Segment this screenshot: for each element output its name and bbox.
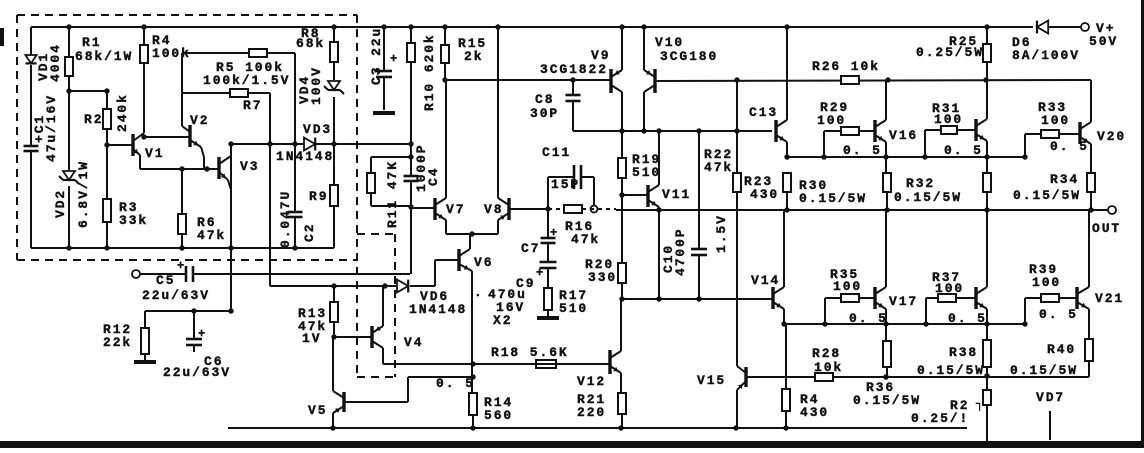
svg-text:V5: V5 xyxy=(308,403,327,418)
svg-text:V11: V11 xyxy=(662,187,691,202)
svg-text:R10 620k: R10 620k xyxy=(422,33,437,111)
svg-text:R11 47K: R11 47K xyxy=(385,160,400,228)
svg-text:0.15/5W: 0.15/5W xyxy=(1013,188,1081,203)
svg-text:47k: 47k xyxy=(197,228,226,243)
svg-text:0.15/5W: 0.15/5W xyxy=(799,191,867,206)
svg-text:22k: 22k xyxy=(103,335,132,350)
svg-text:15P: 15P xyxy=(551,177,580,192)
svg-text:V7: V7 xyxy=(446,202,465,217)
svg-text:0.15/5W: 0.15/5W xyxy=(894,190,962,205)
svg-text:C13: C13 xyxy=(749,105,778,120)
svg-text:330: 330 xyxy=(588,270,617,285)
svg-text:+: + xyxy=(390,52,399,66)
svg-text:100k/1.5V: 100k/1.5V xyxy=(203,73,290,88)
svg-text:100: 100 xyxy=(817,113,846,128)
svg-text:V14: V14 xyxy=(751,273,780,288)
svg-text:R40: R40 xyxy=(1047,342,1076,357)
svg-text:430: 430 xyxy=(800,405,829,420)
svg-text:R32: R32 xyxy=(906,176,935,191)
svg-text:1V: 1V xyxy=(302,331,321,346)
svg-text:4004: 4004 xyxy=(48,43,63,82)
svg-text:V6: V6 xyxy=(474,255,493,270)
svg-text:C8: C8 xyxy=(535,92,554,107)
svg-text:V12: V12 xyxy=(577,374,606,389)
svg-text:4700P: 4700P xyxy=(673,227,688,276)
svg-text:0. 5: 0. 5 xyxy=(843,143,882,158)
svg-text:0. 5: 0. 5 xyxy=(1039,307,1078,322)
svg-text:V9: V9 xyxy=(591,48,610,63)
svg-text:.: . xyxy=(474,285,484,300)
svg-text:100: 100 xyxy=(935,281,964,296)
svg-text:2k: 2k xyxy=(464,49,483,64)
svg-text:3CG180: 3CG180 xyxy=(660,49,718,64)
svg-text:R28: R28 xyxy=(812,346,841,361)
svg-text:47u/16V: 47u/16V xyxy=(44,94,59,162)
svg-text:V3: V3 xyxy=(240,159,259,174)
svg-text:V17: V17 xyxy=(889,294,918,309)
svg-text:50V: 50V xyxy=(1089,34,1118,49)
svg-text:+: + xyxy=(198,327,207,341)
svg-text:V1: V1 xyxy=(145,146,164,161)
svg-text:+: + xyxy=(550,226,559,240)
svg-text:0.25/5W: 0.25/5W xyxy=(916,45,984,60)
svg-text:0.15/5W: 0.15/5W xyxy=(917,363,985,378)
svg-text:V15: V15 xyxy=(697,373,726,388)
svg-text:510: 510 xyxy=(559,301,588,316)
svg-text:30P: 30P xyxy=(530,106,559,121)
svg-text:R1: R1 xyxy=(82,35,101,50)
svg-text:47k: 47k xyxy=(571,232,600,247)
svg-text:0.15/5W: 0.15/5W xyxy=(853,393,921,408)
svg-text:R26 10k: R26 10k xyxy=(812,59,880,74)
svg-text:C3 22u: C3 22u xyxy=(369,27,384,85)
svg-text:R18 5.6K: R18 5.6K xyxy=(491,345,569,360)
svg-text:3CG1822: 3CG1822 xyxy=(540,62,608,77)
svg-text:100: 100 xyxy=(1032,275,1061,290)
svg-text:C7: C7 xyxy=(521,241,540,256)
svg-text:VD2: VD2 xyxy=(53,189,68,218)
svg-text:V21: V21 xyxy=(1095,291,1124,306)
svg-text:220: 220 xyxy=(577,405,606,420)
svg-text:1N4148: 1N4148 xyxy=(409,302,467,317)
svg-text:47k: 47k xyxy=(704,160,733,175)
svg-text:V2: V2 xyxy=(190,113,209,128)
svg-text:┐: ┐ xyxy=(975,397,983,411)
svg-text:0. 5: 0. 5 xyxy=(849,311,888,326)
svg-text:1N4148: 1N4148 xyxy=(276,149,334,164)
svg-text:V4: V4 xyxy=(404,335,423,350)
svg-text:C2: C2 xyxy=(302,223,317,242)
svg-text:R38: R38 xyxy=(949,345,978,360)
svg-text:C11: C11 xyxy=(542,145,571,160)
svg-text:0. 5: 0. 5 xyxy=(948,311,987,326)
svg-text:0. 5: 0. 5 xyxy=(1050,139,1089,154)
svg-text:+: + xyxy=(536,266,545,280)
svg-text:R7: R7 xyxy=(243,98,262,113)
svg-text:+: + xyxy=(177,259,186,273)
svg-text:100: 100 xyxy=(934,112,963,127)
svg-text:68k/1W: 68k/1W xyxy=(75,49,133,64)
svg-text:0.047U: 0.047U xyxy=(278,190,293,248)
svg-text:0. 5: 0. 5 xyxy=(436,376,475,391)
svg-text:22u/63V: 22u/63V xyxy=(142,288,210,303)
svg-text:100V: 100V xyxy=(309,66,324,105)
svg-text:33k: 33k xyxy=(119,213,148,228)
svg-text:68k: 68k xyxy=(296,36,325,51)
svg-text:0.25/!: 0.25/! xyxy=(911,411,969,426)
svg-text:1.5V: 1.5V xyxy=(714,214,729,253)
svg-text:6.8V/1W: 6.8V/1W xyxy=(76,160,91,228)
svg-text:10k: 10k xyxy=(814,360,843,375)
svg-text:V10: V10 xyxy=(655,35,684,50)
svg-text:C5: C5 xyxy=(156,273,175,288)
svg-text:VD3: VD3 xyxy=(303,122,332,137)
svg-text:V16: V16 xyxy=(889,128,918,143)
svg-text:V8: V8 xyxy=(484,202,503,217)
svg-text:100: 100 xyxy=(1041,113,1070,128)
svg-text:X2: X2 xyxy=(493,313,512,328)
svg-text:V20: V20 xyxy=(1097,129,1126,144)
svg-text:560: 560 xyxy=(484,408,513,423)
svg-text:VD7: VD7 xyxy=(1036,390,1065,405)
svg-text:510: 510 xyxy=(632,165,661,180)
svg-text:R9: R9 xyxy=(309,189,328,204)
svg-text:8A/100V: 8A/100V xyxy=(1012,48,1080,63)
svg-text:R2: R2 xyxy=(84,112,103,127)
svg-text:R34: R34 xyxy=(1050,172,1079,187)
svg-text:C4: C4 xyxy=(426,167,441,186)
svg-text:430: 430 xyxy=(750,187,779,202)
svg-text:22u/63V: 22u/63V xyxy=(163,365,231,380)
svg-text:100: 100 xyxy=(833,279,862,294)
svg-text:OUT: OUT xyxy=(1092,221,1121,236)
svg-text:0. 5: 0. 5 xyxy=(944,143,983,158)
svg-text:0.15/5W: 0.15/5W xyxy=(1010,363,1078,378)
svg-text:240k: 240k xyxy=(115,93,130,132)
